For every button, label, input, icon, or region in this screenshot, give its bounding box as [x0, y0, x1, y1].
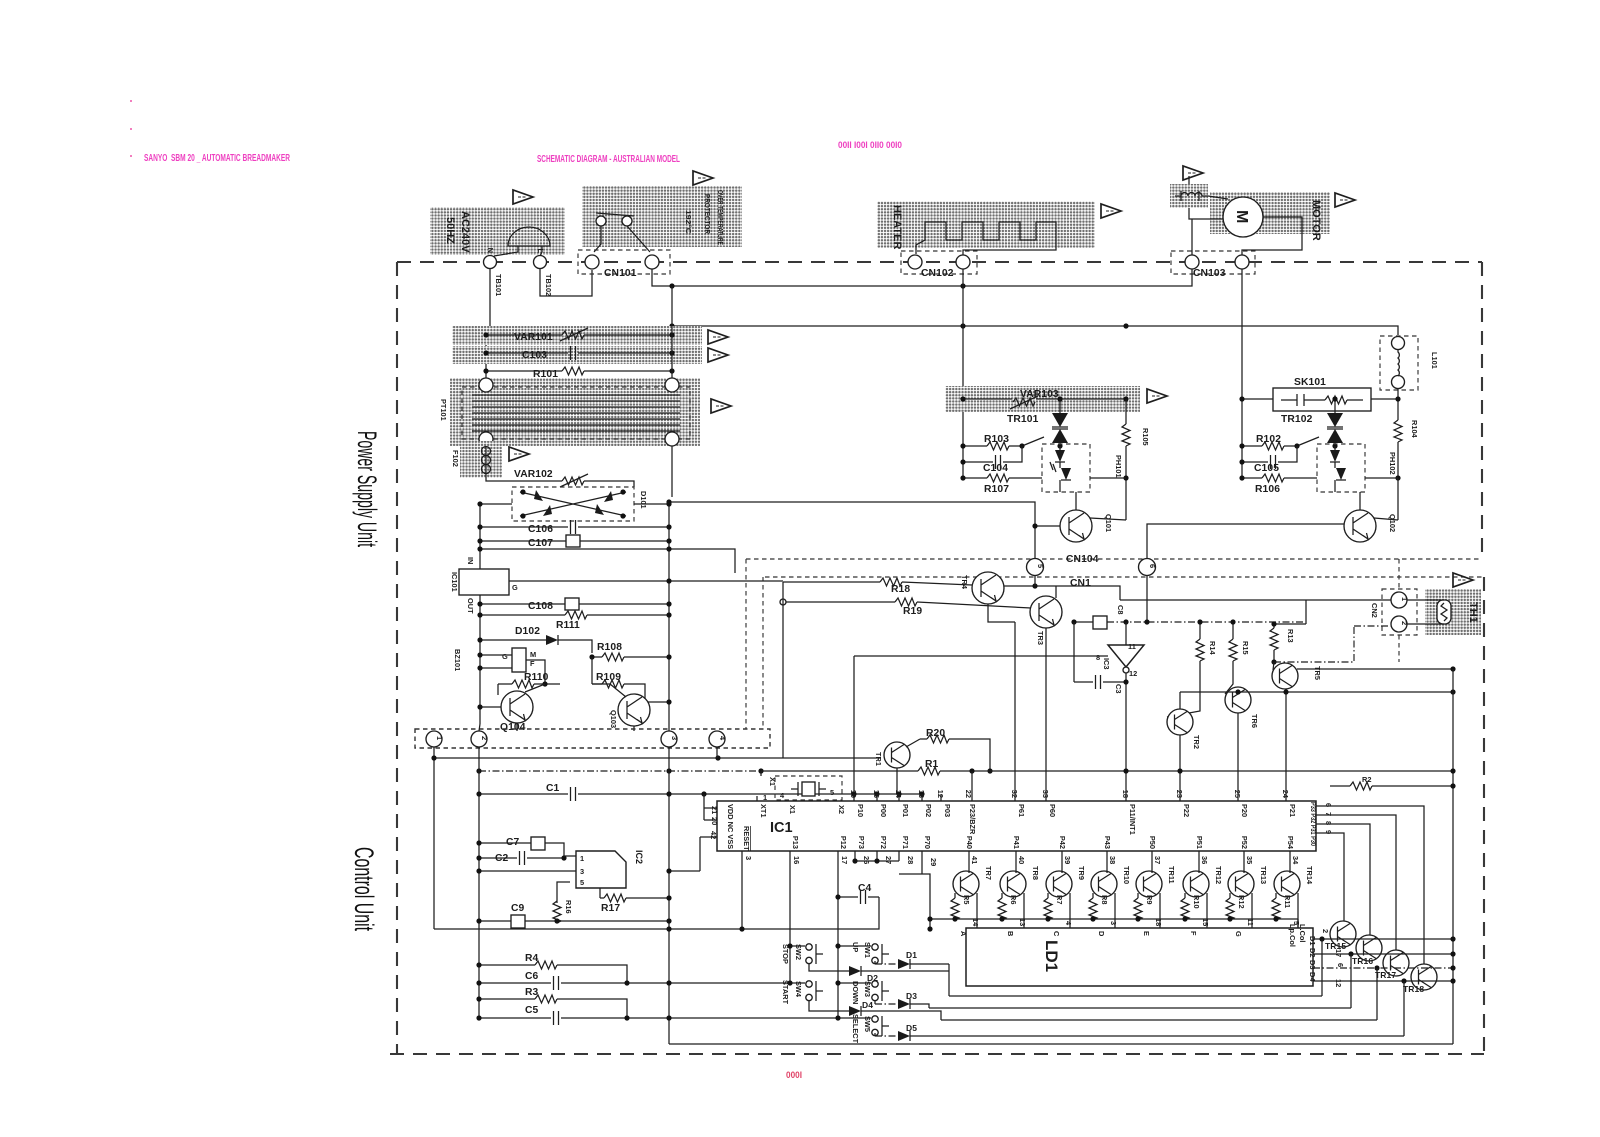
- svg-text:5: 5: [1036, 564, 1045, 568]
- svg-text:TR15: TR15: [1325, 941, 1346, 951]
- svg-text:R11: R11: [1283, 895, 1292, 908]
- transistor TR1: [884, 742, 910, 768]
- IC3 input wire: [1125, 622, 1127, 645]
- wire TB101 down: [486, 269, 490, 379]
- svg-text:1: 1: [580, 854, 584, 863]
- transistor TR5: [1272, 663, 1298, 689]
- Control unit border dashed: [390, 577, 1484, 1054]
- CN104 pin5 lower stub: [1034, 576, 1036, 586]
- CN104 pin 5: [1027, 559, 1044, 576]
- wire strip1 to TR1: [434, 747, 881, 929]
- junction live-963: [960, 323, 965, 328]
- switch SK101 box: [1273, 388, 1371, 411]
- svg-text:P00: P00: [879, 804, 888, 817]
- svg-text:25: 25: [1233, 790, 1242, 798]
- thermal switch symbol: [596, 216, 606, 226]
- svg-text:G: G: [1234, 931, 1243, 937]
- noise filter symbol: [1175, 191, 1208, 201]
- svg-text:18: 18: [1121, 790, 1130, 798]
- motor stippled patch: [1210, 192, 1330, 234]
- transistor TR10: [1091, 871, 1117, 897]
- svg-text:P11/INT1: P11/INT1: [1128, 804, 1137, 835]
- svg-text:00II I00I 0II0 00I0: 00II I00I 0II0 00I0: [838, 140, 902, 151]
- svg-text:41: 41: [970, 856, 979, 864]
- svg-text:OUT: OUT: [466, 598, 475, 614]
- emitter common bus: [930, 919, 1298, 928]
- svg-text:12: 12: [936, 790, 945, 798]
- IC1 box: [717, 801, 1316, 851]
- svg-text:M: M: [530, 650, 536, 659]
- vertical feed from IC101 out: [782, 582, 784, 758]
- svg-text:3: 3: [744, 856, 753, 860]
- over temperature protector stippled box: [582, 186, 742, 247]
- svg-text:R12: R12: [1237, 895, 1246, 909]
- svg-text:8: 8: [1096, 653, 1100, 662]
- svg-text:A: A: [959, 931, 968, 937]
- svg-text:Control Unit: Control Unit: [349, 847, 379, 931]
- VAR103 stippled strip: [945, 386, 1140, 412]
- svg-text:N: N: [486, 248, 495, 253]
- svg-text:P60: P60: [1048, 804, 1057, 817]
- svg-text:P41: P41: [1012, 836, 1021, 849]
- svg-text:P42: P42: [1058, 836, 1067, 849]
- svg-text:LD1: LD1: [1042, 940, 1061, 972]
- svg-text:C3: C3: [1114, 684, 1123, 693]
- junction live-672: [669, 323, 674, 328]
- wire CN101 to CN103 neutral rail: [652, 269, 1192, 286]
- connector pin 2: [471, 731, 487, 747]
- transistor TR8: [1000, 871, 1026, 897]
- svg-text:P02: P02: [924, 804, 933, 817]
- wire TB102 to CN101: [540, 269, 592, 296]
- L101 terminals and coil: [1392, 337, 1405, 350]
- junction r101 ends: [483, 368, 488, 373]
- warning triangle motor left: [1183, 166, 1203, 180]
- connector CN101 dashed box: [578, 250, 670, 274]
- warning triangle f102: [509, 447, 529, 461]
- svg-text:50HZ: 50HZ: [444, 217, 456, 244]
- TR5 collector line: [1297, 668, 1453, 670]
- svg-text:AC240V: AC240V: [459, 211, 471, 253]
- svg-text:2: 2: [1321, 929, 1330, 933]
- svg-text:C103: C103: [522, 350, 547, 361]
- svg-text:TR11: TR11: [1167, 866, 1176, 884]
- power connector strip dashed box: [415, 729, 770, 748]
- svg-text:37: 37: [1153, 856, 1162, 864]
- svg-text:P20: P20: [1240, 804, 1249, 817]
- svg-text:P70: P70: [923, 836, 932, 849]
- svg-text:E: E: [1142, 931, 1151, 936]
- PH101 diodes: [1059, 446, 1061, 492]
- warning triangle TH1: [1453, 573, 1473, 587]
- connector CN102 dashed box: [901, 251, 977, 274]
- wires P73 P72 P71 bus: [855, 851, 930, 929]
- svg-text:C8: C8: [1116, 605, 1125, 614]
- transistor TR6: [1225, 687, 1251, 713]
- svg-text:P73: P73: [857, 836, 866, 849]
- svg-text:D101: D101: [639, 491, 648, 509]
- Power Supply Unit border dashed: [397, 262, 1482, 1054]
- photocoupler PH101 dashed box: [1042, 444, 1090, 492]
- wire CN102 right rail down: [962, 269, 964, 478]
- collector wires to LD1: [977, 893, 1298, 928]
- svg-text:29: 29: [929, 858, 938, 866]
- LD1 box: [966, 928, 1313, 986]
- svg-text:32: 32: [1010, 790, 1019, 798]
- svg-text:IC3: IC3: [1102, 658, 1111, 670]
- svg-text:TR6: TR6: [1250, 714, 1259, 728]
- right emitter rail: [1452, 669, 1454, 1044]
- svg-text:TR8: TR8: [1031, 866, 1040, 880]
- warning triangle motor right: [1335, 193, 1355, 207]
- svg-text:TR14: TR14: [1305, 866, 1314, 885]
- svg-text:Power Supply Unit: Power Supply Unit: [352, 431, 382, 547]
- svg-text:6: 6: [1148, 564, 1157, 568]
- svg-text:000I: 000I: [786, 1070, 802, 1081]
- svg-text:TR5: TR5: [1313, 666, 1322, 680]
- wire IC101 out to control: [509, 580, 783, 582]
- svg-text:R9: R9: [1145, 895, 1154, 904]
- LD1 pin12 line: [1313, 980, 1453, 982]
- svg-text:TR10: TR10: [1122, 866, 1131, 884]
- AC240V 50HZ stippled box: [430, 207, 565, 255]
- warning triangle protector: [693, 171, 713, 185]
- svg-text:TR17: TR17: [1375, 970, 1396, 980]
- wire top pins stubs: [854, 794, 941, 801]
- svg-text:C107: C107: [528, 538, 553, 549]
- IC3 output to IC1 pin18: [1125, 673, 1127, 801]
- svg-text:PH101: PH101: [1114, 455, 1123, 478]
- svg-text:R105: R105: [1141, 428, 1150, 446]
- svg-text:TR12: TR12: [1214, 866, 1223, 884]
- warning triangle var101: [708, 330, 728, 344]
- svg-text:TH1: TH1: [1467, 602, 1479, 623]
- svg-text:R5: R5: [962, 895, 971, 904]
- svg-text:OVER TEMPERATURE: OVER TEMPERATURE: [716, 190, 725, 245]
- svg-text:L101: L101: [1430, 352, 1439, 369]
- svg-text:22: 22: [964, 790, 973, 798]
- svg-text:SANYO SBM 20 _ AUTOMATIC BREA: SANYO SBM 20 _ AUTOMATIC BREADMAKER: [144, 153, 291, 164]
- thermistor symbol: [1437, 600, 1451, 624]
- svg-text:D102: D102: [515, 626, 540, 637]
- svg-text:P21: P21: [1288, 804, 1297, 817]
- CN1 strip dashed lines: [746, 559, 1484, 729]
- transistor TR3: [1030, 596, 1062, 628]
- rail from pin3 down: [668, 747, 670, 1044]
- svg-text:R10: R10: [1192, 895, 1201, 909]
- coil L101 dashed box: [1380, 336, 1418, 390]
- wire L101 down: [1397, 389, 1399, 478]
- ground bus bottom: [669, 1043, 1453, 1045]
- svg-text:6: 6: [1336, 963, 1345, 967]
- bridge rectifier D101 dashed box: [512, 487, 634, 521]
- connector CN103 dashed box: [1171, 251, 1255, 274]
- svg-text:C: C: [1052, 931, 1061, 937]
- svg-text:12: 12: [1334, 979, 1343, 987]
- LD1 pin17 line: [1313, 953, 1453, 955]
- TR6 emitter to IC1 pin25: [1237, 713, 1239, 801]
- transistor TR13: [1228, 871, 1254, 897]
- PT101 winding box: [462, 387, 690, 439]
- wire CN2 pin2 return: [1274, 626, 1391, 662]
- wire P10 line: [854, 656, 1089, 794]
- svg-text:R15: R15: [1241, 641, 1250, 655]
- junction c103 ends: [483, 350, 488, 355]
- svg-text:C6: C6: [525, 971, 539, 982]
- svg-text:IC101: IC101: [450, 572, 459, 592]
- TR5 emitter to IC1 pin24: [1285, 689, 1287, 801]
- wire P12 pin17 down: [837, 851, 839, 1018]
- svg-text:P23/BZR: P23/BZR: [968, 804, 977, 835]
- CN103 pin circles: [1185, 255, 1199, 269]
- svg-text:33: 33: [1041, 790, 1050, 798]
- svg-text:R106: R106: [1255, 484, 1280, 495]
- svg-text:D4: D4: [862, 1000, 873, 1010]
- svg-text:BZ101: BZ101: [453, 649, 462, 671]
- warning triangle pt101: [711, 399, 731, 413]
- wire P13 pin16 down: [789, 851, 791, 983]
- svg-text:13: 13: [917, 790, 926, 798]
- svg-text:P52: P52: [1240, 836, 1249, 849]
- svg-text:C108: C108: [528, 601, 553, 612]
- TR2 emitter to IC1 pin23: [1179, 735, 1181, 801]
- svg-text:P51: P51: [1195, 836, 1204, 849]
- transistor Q104: [501, 691, 533, 723]
- svg-text:D2: D2: [1308, 948, 1317, 957]
- margin marks: [130, 100, 132, 102]
- svg-text:X2: X2: [837, 805, 846, 814]
- svg-text:VAR103: VAR103: [1020, 389, 1059, 400]
- svg-text:11: 11: [1128, 642, 1136, 651]
- CN102 pin circles: [908, 255, 922, 269]
- IC1 pins 21 20 bracket: [704, 794, 717, 820]
- fuse F102 symbol: [482, 447, 491, 456]
- svg-text:1: 1: [435, 736, 444, 740]
- svg-text:VAR102: VAR102: [514, 469, 553, 480]
- CN104 pin 6: [1139, 559, 1156, 576]
- rail from pin2 down: [478, 747, 480, 1018]
- svg-text:C5: C5: [525, 1005, 539, 1016]
- svg-text:192°C: 192°C: [684, 210, 693, 235]
- svg-text:R8: R8: [1100, 895, 1109, 904]
- svg-text:R6: R6: [1009, 895, 1018, 904]
- svg-text:VDD NC VSS: VDD NC VSS: [726, 804, 735, 849]
- svg-text:F102: F102: [451, 450, 460, 467]
- emitter bus line 692: [1180, 691, 1453, 693]
- svg-text:34: 34: [1291, 856, 1300, 865]
- thermistor TH1 stippled box: [1425, 589, 1481, 635]
- svg-text:R16: R16: [564, 900, 573, 914]
- svg-text:R110: R110: [524, 672, 549, 683]
- IC3 side pin wire: [1089, 655, 1108, 657]
- svg-text:P50: P50: [1148, 836, 1157, 849]
- wire D101 left output: [480, 504, 512, 724]
- svg-text:TR2: TR2: [1192, 735, 1201, 749]
- svg-text:SW1: SW1: [863, 942, 872, 958]
- key matrix line 1020: [941, 968, 1377, 1020]
- svg-text:17: 17: [840, 856, 849, 864]
- svg-text:R19: R19: [903, 606, 922, 617]
- svg-text:TR18: TR18: [1403, 984, 1424, 994]
- svg-text:Q102: Q102: [1388, 514, 1397, 532]
- mains plug symbol: [508, 227, 550, 246]
- svg-text:R111: R111: [556, 620, 580, 631]
- svg-text:TR4: TR4: [960, 575, 969, 590]
- svg-text:P61: P61: [1017, 804, 1026, 817]
- svg-text:P40: P40: [965, 836, 974, 849]
- key matrix line 1036: [916, 981, 1404, 1036]
- svg-text:35: 35: [1245, 856, 1254, 864]
- connector pin 1: [426, 731, 442, 747]
- svg-text:P13: P13: [791, 836, 800, 849]
- svg-text:24: 24: [1281, 790, 1290, 799]
- svg-text:TR9: TR9: [1077, 866, 1086, 880]
- svg-text:TR16: TR16: [1352, 956, 1373, 966]
- transistor TR16: [1356, 935, 1382, 961]
- svg-text:D3: D3: [906, 991, 917, 1001]
- transistor TR17: [1383, 950, 1409, 976]
- wire CN103 right rail down: [1241, 269, 1243, 478]
- svg-text:UP: UP: [851, 942, 860, 952]
- junction var101 ends: [483, 332, 488, 337]
- svg-text:19: 19: [849, 790, 858, 798]
- IC1 pin 42: [669, 837, 717, 871]
- fuse F102 stippled box: [460, 441, 502, 478]
- svg-text:27: 27: [884, 856, 893, 864]
- motor M circle: [1223, 197, 1263, 237]
- svg-text:D1: D1: [906, 950, 917, 960]
- svg-text:D2: D2: [867, 973, 878, 983]
- svg-text:23: 23: [1175, 790, 1184, 798]
- svg-text:P71: P71: [901, 836, 910, 849]
- CN104 pin6 wire down: [1146, 576, 1148, 622]
- varistor VAR103: [963, 396, 1126, 409]
- TR3 base rail to IC1 pin33: [1045, 628, 1047, 801]
- svg-text:TR101: TR101: [1007, 414, 1039, 425]
- svg-text:P10: P10: [856, 804, 865, 817]
- svg-text:TR102: TR102: [1281, 414, 1313, 425]
- svg-text:SCHEMATIC DIAGRAM - AUSTRALIAN: SCHEMATIC DIAGRAM - AUSTRALIAN MODEL: [537, 154, 680, 165]
- svg-text:R17: R17: [601, 903, 620, 914]
- warning triangle near plug: [513, 190, 533, 204]
- transistor TR11: [1136, 871, 1162, 897]
- svg-text:CN102: CN102: [921, 268, 954, 279]
- svg-text:TB101: TB101: [494, 274, 503, 296]
- capacitor C103: [486, 352, 672, 354]
- svg-text:RESET: RESET: [742, 826, 751, 851]
- warning triangle c103: [708, 348, 728, 362]
- heater element symbol: [916, 222, 1056, 255]
- svg-text:L: L: [536, 248, 545, 253]
- key matrix line 996: [949, 939, 1322, 996]
- svg-text:PH102: PH102: [1388, 452, 1397, 475]
- svg-text:39: 39: [1063, 856, 1072, 864]
- junction neutral-672: [669, 283, 674, 288]
- svg-text:2: 2: [480, 736, 489, 740]
- transistor TR4: [972, 572, 1004, 604]
- svg-text:TR13: TR13: [1259, 866, 1268, 884]
- svg-text:P72: P72: [879, 836, 888, 849]
- transistor TR9: [1046, 871, 1072, 897]
- wire rail2 mid: [479, 770, 761, 772]
- wire D101 right output: [634, 504, 669, 731]
- svg-text:12: 12: [1129, 669, 1137, 678]
- junction var103: [960, 396, 965, 401]
- svg-text:Lp.Col: Lp.Col: [1288, 924, 1297, 947]
- svg-text:P12: P12: [839, 836, 848, 849]
- svg-text:R109: R109: [596, 672, 621, 683]
- svg-text:F: F: [1189, 931, 1198, 936]
- svg-text:40: 40: [1017, 856, 1026, 864]
- wire X1 stub: [757, 771, 835, 801]
- svg-text:Q101: Q101: [1104, 514, 1113, 532]
- svg-text:CN104: CN104: [1066, 554, 1099, 565]
- svg-text:28: 28: [906, 856, 915, 864]
- regulator IC101: [459, 569, 509, 595]
- svg-text:Q103: Q103: [609, 710, 618, 728]
- svg-text:3: 3: [670, 736, 679, 740]
- svg-text:MOTOR: MOTOR: [1310, 200, 1322, 241]
- svg-text:X1: X1: [788, 805, 797, 814]
- svg-text:21: 21: [710, 806, 719, 814]
- svg-text:XT1: XT1: [759, 804, 768, 818]
- svg-text:P01: P01: [901, 804, 910, 817]
- connector CN2 dashed box: [1382, 589, 1417, 635]
- PT101 terminals: [479, 378, 493, 392]
- wire to control dashed area: [480, 549, 735, 573]
- transistor TR7: [953, 871, 979, 897]
- IC1 right pin wires to TR15-18: [1316, 806, 1424, 964]
- heater stippled box: [877, 201, 1095, 248]
- CN2 pin 2: [1391, 616, 1407, 632]
- svg-text:P03: P03: [943, 804, 952, 817]
- svg-text:TR7: TR7: [984, 866, 993, 880]
- svg-text:D: D: [1097, 931, 1106, 937]
- svg-text:R107: R107: [984, 484, 1009, 495]
- bridge diodes: [520, 492, 626, 516]
- wire pin4 stub: [716, 747, 718, 758]
- svg-text:38: 38: [1108, 856, 1117, 864]
- svg-text:R108: R108: [597, 642, 622, 653]
- svg-text:CN101: CN101: [604, 268, 637, 279]
- junction neutral-963: [960, 283, 965, 288]
- svg-text:5: 5: [830, 788, 834, 797]
- svg-text:16: 16: [792, 856, 801, 864]
- svg-text:P22: P22: [1182, 804, 1191, 817]
- junction live-1126: [1123, 323, 1128, 328]
- svg-text:G: G: [512, 583, 518, 592]
- svg-text:C9: C9: [511, 903, 525, 914]
- svg-text:X1: X1: [768, 777, 777, 786]
- svg-text:R102: R102: [1256, 434, 1281, 445]
- svg-text:HEATER: HEATER: [891, 205, 903, 249]
- svg-text:TR3: TR3: [1036, 631, 1045, 645]
- warning triangle heater: [1101, 204, 1121, 218]
- svg-text:42: 42: [709, 831, 718, 839]
- CN2 pin 1: [1391, 592, 1407, 608]
- svg-text:CN2: CN2: [1370, 603, 1379, 618]
- CN2 dashed stem: [1398, 559, 1400, 662]
- svg-text:PROTECTOR: PROTECTOR: [703, 194, 712, 235]
- svg-text:TR1: TR1: [874, 752, 883, 766]
- transistor TR18: [1411, 964, 1437, 990]
- wire pin2 stub: [479, 724, 480, 731]
- motor noise filter stippled box: [1170, 184, 1208, 208]
- wire Q101 to CN104 pin5: [669, 502, 1035, 558]
- svg-text:M: M: [1233, 210, 1250, 223]
- svg-text:Q104: Q104: [500, 722, 526, 733]
- crystal symbol: [802, 782, 815, 796]
